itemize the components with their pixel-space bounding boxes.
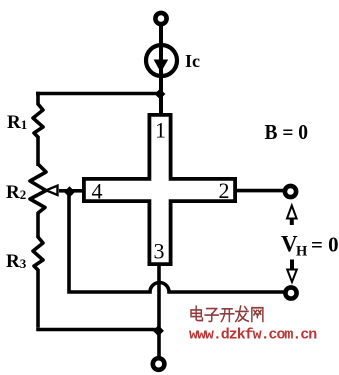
terminal output top (open circle)	[285, 186, 296, 197]
wire left rail between R2 and R3	[36, 212, 40, 238]
wire top terminal to current source and through to cross top	[159, 25, 163, 114]
svg-text:www.dzkfw.com.cn: www.dzkfw.com.cn	[189, 327, 317, 344]
terminal top (open circle)	[155, 13, 166, 24]
node junction top (dot)	[155, 89, 166, 100]
svg-text:3: 3	[154, 239, 165, 264]
current source Ic (circle)	[146, 45, 177, 76]
wire left rail bottom segment	[36, 269, 40, 328]
char 网	[252, 308, 263, 322]
arrow up (hollow head)	[287, 206, 297, 219]
wire wiper node down and across with hop to output terminal bottom	[69, 193, 285, 293]
svg-text:4: 4	[92, 179, 103, 204]
node junction wiper (dot)	[64, 186, 75, 197]
current source arrow head	[154, 60, 169, 73]
Hall element cross body	[84, 115, 235, 264]
char 发	[236, 306, 249, 321]
arrow down (hollow head)	[290, 260, 294, 271]
potentiometer R2 wiper arrow (hollow triangle)	[46, 186, 58, 195]
terminal bottom (open circle)	[153, 358, 165, 370]
char 子	[205, 309, 218, 322]
wire wiper to node	[59, 189, 70, 193]
svg-text:1: 1	[155, 118, 166, 143]
wire bottom from left rail to junction	[36, 328, 158, 332]
wire Hall pin 3 down to bottom terminal	[157, 265, 161, 357]
char 电	[191, 306, 202, 320]
potentiometer R2 (zigzag)	[30, 164, 46, 213]
resistor R1 (zigzag)	[33, 104, 43, 137]
wire left rail between R1 and R2	[36, 136, 40, 166]
svg-text:= 0: = 0	[311, 233, 339, 257]
wire junction to left rail	[36, 92, 160, 96]
wire left rail top segment	[36, 92, 40, 105]
char 开	[220, 309, 233, 322]
terminal output bottom (open circle)	[285, 287, 296, 298]
wire Hall pin 2 to output terminal	[237, 189, 284, 193]
svg-text:H: H	[296, 244, 308, 260]
resistor R3 (zigzag)	[33, 237, 43, 270]
watermark Chinese text 电子开发网	[191, 306, 263, 321]
node junction bottom (dot)	[153, 325, 164, 336]
svg-text:2: 2	[219, 178, 230, 203]
svg-text:Ic: Ic	[185, 51, 200, 71]
svg-text:B = 0: B = 0	[265, 120, 309, 144]
wire node to Hall terminal 4	[69, 189, 84, 193]
